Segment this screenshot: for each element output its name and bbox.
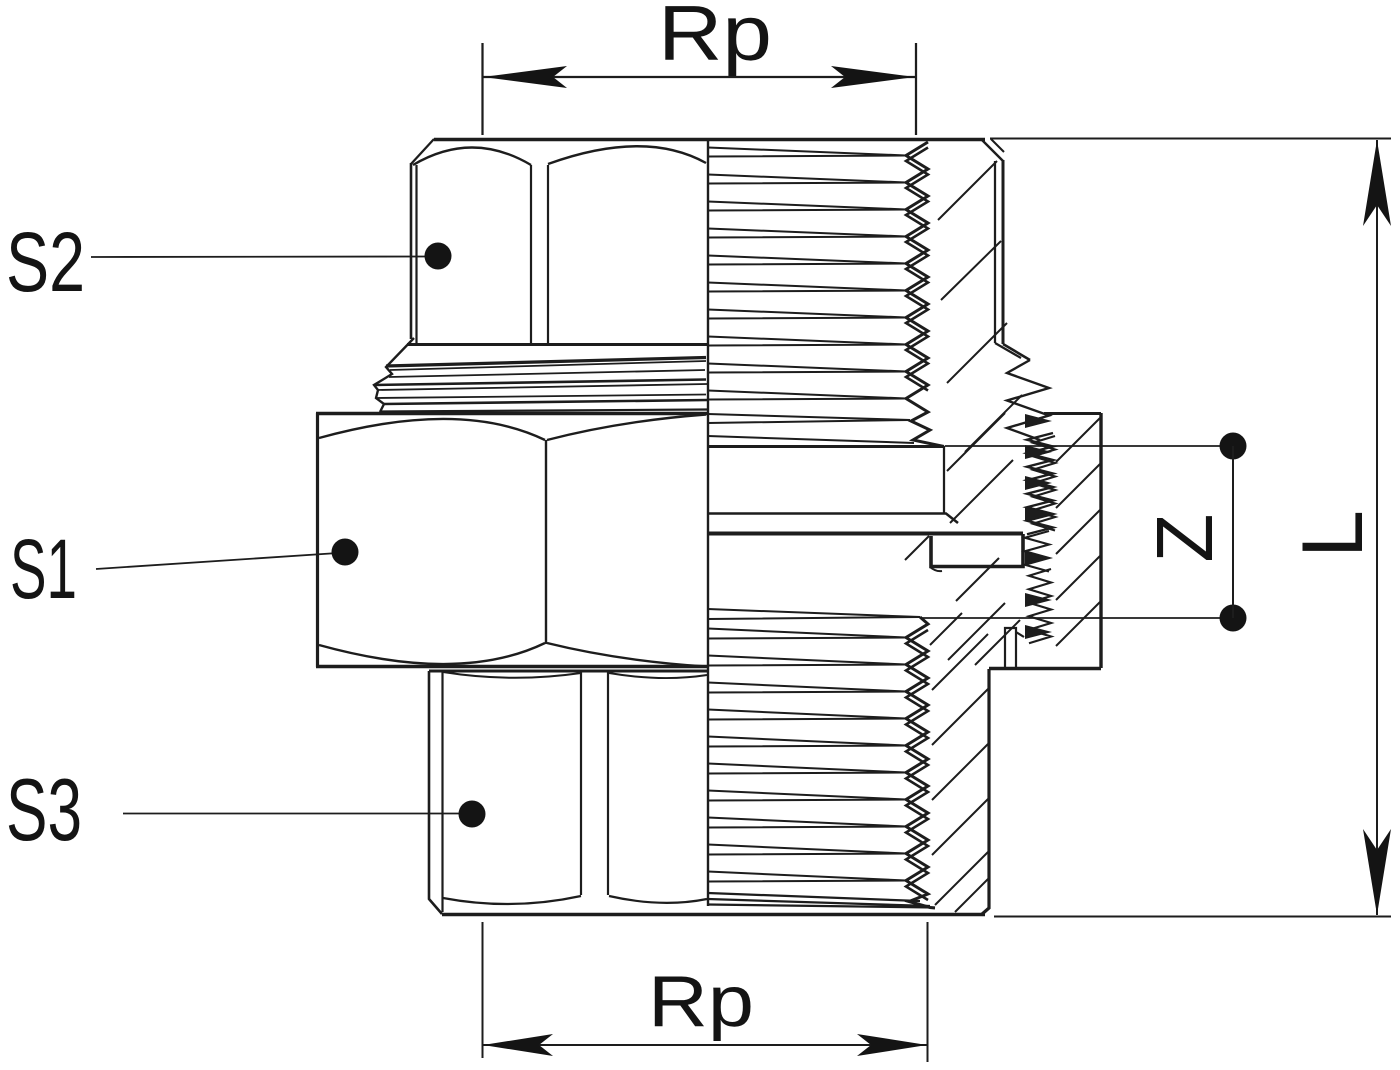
top end piece S2: hex bottom edge xyxy=(407,343,708,346)
bottom end piece S3: hex facet edge b xyxy=(607,672,609,895)
bottom piece spigot: top silhouette xyxy=(708,532,1023,536)
hatching: top piece lower material xyxy=(947,413,1013,523)
svg-text:L: L xyxy=(1285,510,1381,558)
dimension Z: upper leader line xyxy=(945,445,1233,447)
top end piece S2: hex facet edge a xyxy=(530,165,532,343)
dimension Rp (top) label xyxy=(658,0,772,77)
arrowhead right (top Rp) xyxy=(831,66,915,88)
bottom piece spigot: end collar outline xyxy=(931,534,1023,567)
male thread relief band: ridge lines xyxy=(386,358,706,367)
thread mesh at spigot tip xyxy=(1025,531,1049,572)
union nut S1: facet arc top-right xyxy=(547,415,706,441)
union nut S1: outer wall right xyxy=(1099,413,1102,668)
label S1: leader line xyxy=(96,553,338,569)
dimension L: arrowhead down xyxy=(1363,829,1391,915)
top end piece S2: top-left chamfer xyxy=(411,139,434,164)
dimension Rp (bottom): dimension line xyxy=(483,1044,927,1046)
bottom end piece S3: left inner edge xyxy=(441,672,443,912)
svg-text:S1: S1 xyxy=(10,522,77,616)
female thread Rp (bottom piece): helix crest lines xyxy=(708,609,920,882)
union nut S1: facet arc bottom-right xyxy=(547,643,706,667)
dimension L: top extension line xyxy=(990,138,1391,140)
union nut S1: hex facet edge xyxy=(545,440,547,644)
svg-text:Rp: Rp xyxy=(658,0,772,77)
hatching: right of spigot xyxy=(956,558,999,601)
bottom end piece S3: facet arcs top xyxy=(443,672,707,678)
label S1: reference dot xyxy=(332,539,359,566)
dimension L: arrowhead up xyxy=(1363,140,1391,226)
bottom end piece S3: hex facet edge a xyxy=(580,672,582,895)
hatching: top piece wall section xyxy=(938,161,1022,452)
top piece end face (chamber bottom) xyxy=(708,514,958,524)
union nut female thread: meshing zigzag upper xyxy=(1027,433,1053,534)
union nut S1: left edge xyxy=(316,413,319,667)
union nut female thread: meshing zigzag lower xyxy=(1029,569,1051,643)
dimension Rp (bottom): right extension line xyxy=(927,922,929,1062)
dimension Z: connector line xyxy=(1232,446,1234,618)
svg-text:S2: S2 xyxy=(6,215,85,309)
union nut S1: top edge (section half) xyxy=(1044,412,1101,415)
hatching: gap left of spigot xyxy=(905,536,929,560)
internal chamber: right edge xyxy=(943,446,945,514)
section centerline edge of part xyxy=(707,139,709,906)
thread engagement dark teeth xyxy=(1025,414,1052,428)
top end piece S2: hex facet edge b xyxy=(547,165,549,343)
top end piece S2: outer wall inner line xyxy=(994,161,996,343)
top end piece S2: left outer edge xyxy=(410,163,413,339)
arrowhead left (top Rp) xyxy=(483,66,567,88)
dimension line Rp top xyxy=(482,76,915,78)
top end piece S2: top-right chamfer lines xyxy=(982,140,1003,161)
bottom end piece S3: bottom face xyxy=(442,913,985,916)
dimension Rp (bottom): left extension line xyxy=(482,922,484,1058)
bottom end piece S3: left outer edge xyxy=(429,671,442,914)
top piece wall flare to male thread xyxy=(995,343,1021,358)
dimension Rp (bottom): arrowhead right xyxy=(857,1034,927,1056)
hatching: bottom piece material inside nut xyxy=(930,603,1020,665)
union nut S1: facet arc bottom-left xyxy=(319,643,545,664)
bottom end piece S3: facet arcs bottom xyxy=(443,896,707,904)
top end piece S2: top face xyxy=(434,138,985,142)
union nut S1: bottom edge (section half) xyxy=(989,667,1101,671)
extension line right (top Rp) xyxy=(915,43,917,135)
top end piece S2: facet arc left xyxy=(413,148,531,166)
bottom piece shoulder line below spigot xyxy=(930,567,942,571)
female thread Rp (top piece): helix crest lines xyxy=(708,148,914,444)
hatching: bottom piece wall section xyxy=(932,634,988,912)
dimension Rp (bottom): arrowhead left xyxy=(483,1034,553,1056)
top end piece S2: facet arc right xyxy=(548,146,706,164)
union nut S1: facet arc top-left xyxy=(319,419,545,440)
male thread relief band: left jagged silhouette xyxy=(374,338,414,412)
top end piece S2: outer wall outer line xyxy=(1002,160,1005,344)
dimension L: dimension line xyxy=(1376,140,1378,915)
dimension Z: lower dot xyxy=(1220,605,1247,632)
male thread of top piece (engaged zone): sawtooth xyxy=(1007,360,1049,440)
dimension Z: lower leader line xyxy=(921,617,1233,619)
bottom piece: thread undercut groove xyxy=(1005,628,1024,668)
label S2: reference dot xyxy=(425,243,452,270)
label S3: reference dot xyxy=(459,801,486,828)
bottom end piece S3: hex top edge xyxy=(429,670,708,673)
female thread Rp (bottom piece): profile zigzag xyxy=(906,617,935,908)
union nut S1: top edge (left half) xyxy=(316,412,708,416)
svg-text:S3: S3 xyxy=(6,760,82,859)
female thread Rp (top piece): profile zigzag xyxy=(906,142,944,447)
extension line left (top Rp) xyxy=(481,43,483,135)
union nut S1: bottom edge (left half) xyxy=(316,665,708,669)
dimension L: bottom extension line xyxy=(994,916,1391,918)
bottom piece: outer wall right xyxy=(981,669,989,915)
bottom piece thread runout lines xyxy=(708,893,935,908)
label S2: leader line xyxy=(91,256,430,259)
hatching: union nut wall section xyxy=(1056,418,1100,646)
top end piece S2: left inner edge xyxy=(415,165,417,344)
svg-text:Rp: Rp xyxy=(648,962,754,1042)
svg-text:Z: Z xyxy=(1140,514,1229,563)
dimension Z: upper dot xyxy=(1220,433,1247,460)
internal chamber of union: top edge xyxy=(708,445,944,448)
label S3: leader line xyxy=(123,813,462,815)
